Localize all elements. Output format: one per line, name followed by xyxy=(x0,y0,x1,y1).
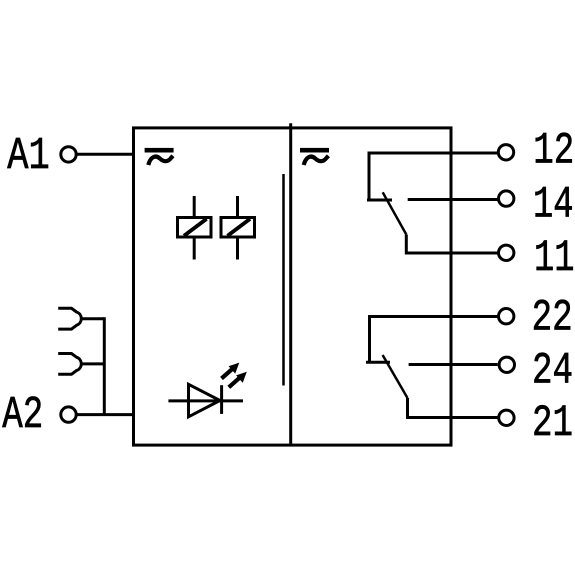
wire bus vertical xyxy=(103,317,106,414)
svg-text:14: 14 xyxy=(533,180,574,230)
terminal A1 xyxy=(61,147,76,162)
compartment divider xyxy=(289,123,292,445)
plug connector tab 1 xyxy=(58,308,81,329)
relay enclosure box xyxy=(134,128,452,445)
wire connector 2 to bus xyxy=(81,362,105,365)
wire terminal 14 xyxy=(408,198,498,201)
coil K2 xyxy=(221,196,255,260)
wire A1 to box xyxy=(78,153,136,156)
terminal 12 xyxy=(498,145,513,160)
AC symbol output side xyxy=(300,148,329,165)
svg-text:11: 11 xyxy=(534,234,575,284)
contact lever top xyxy=(383,192,407,234)
wire terminal 11 xyxy=(406,235,497,254)
plug connector tab 2 xyxy=(58,354,81,375)
wire connector 1 to bus xyxy=(81,317,105,320)
terminal 21 xyxy=(499,410,514,425)
NC contact stub bottom xyxy=(366,361,390,364)
terminal A2 xyxy=(61,407,76,422)
LED D1 xyxy=(168,384,243,417)
coil K1 xyxy=(178,196,212,260)
terminal 22 xyxy=(499,309,514,324)
svg-text:22: 22 xyxy=(532,293,573,343)
svg-text:A2: A2 xyxy=(2,389,43,441)
svg-text:A1: A1 xyxy=(7,130,50,182)
svg-text:12: 12 xyxy=(533,126,574,176)
wire terminal 12 xyxy=(369,153,498,200)
wire terminal 21 xyxy=(408,398,498,418)
NC contact stub top xyxy=(367,199,392,202)
svg-text:24: 24 xyxy=(532,347,573,397)
wire terminal 24 xyxy=(409,363,498,366)
isolation barrier line xyxy=(282,174,285,386)
wire terminal 22 xyxy=(370,317,498,363)
wire A2 to box xyxy=(78,413,136,416)
terminal 24 xyxy=(499,357,514,372)
terminal 11 xyxy=(499,245,514,260)
svg-text:21: 21 xyxy=(532,399,573,449)
AC symbol input side xyxy=(145,148,174,165)
terminal 14 xyxy=(499,191,514,206)
LED emission arrows xyxy=(222,363,247,388)
contact lever bottom xyxy=(383,355,408,398)
